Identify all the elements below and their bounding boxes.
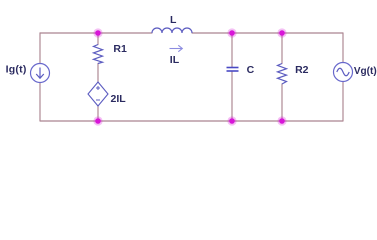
svg-text:IL: IL [170, 54, 180, 66]
svg-text:Vg(t): Vg(t) [354, 66, 377, 77]
svg-text:L: L [170, 14, 177, 26]
svg-text:2IL: 2IL [111, 93, 127, 105]
svg-text:Ig(t): Ig(t) [6, 63, 27, 75]
svg-text:C: C [247, 64, 255, 76]
svg-text:R1: R1 [113, 43, 127, 55]
svg-text:R2: R2 [295, 64, 309, 76]
